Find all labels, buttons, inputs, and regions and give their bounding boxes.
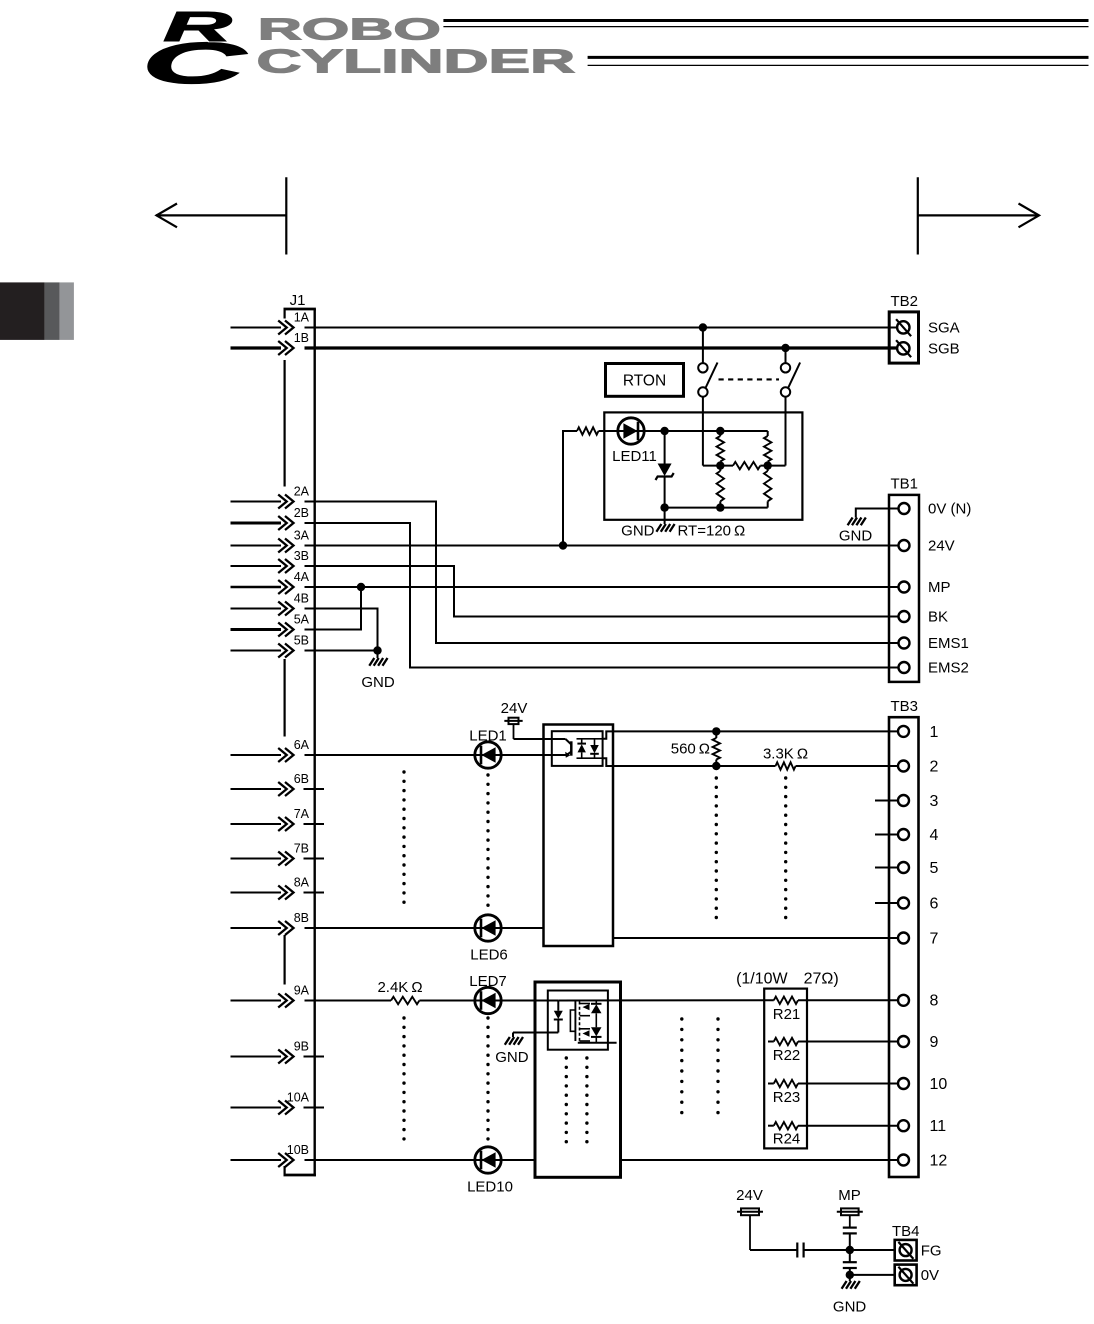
wire 5A to 4A — [305, 587, 362, 630]
svg-text:ROBO: ROBO — [258, 12, 441, 47]
svg-text:R: R — [163, 3, 232, 50]
page tab block — [0, 282, 45, 340]
PC2 body diode down — [591, 1027, 602, 1036]
wire switch S2 to RT network — [785, 397, 787, 466]
PC2 MOSFET pair — [574, 1001, 576, 1041]
J1 pin 10A — [231, 1107, 282, 1109]
LED1 — [475, 742, 501, 768]
TB1 pin EMS1 — [899, 638, 910, 649]
TB3 pin 7 — [898, 933, 909, 944]
wire TB1 0V to ground — [856, 509, 898, 518]
resistor ladder top-right — [767, 431, 769, 436]
wire node to ground — [849, 1275, 851, 1281]
svg-text:2: 2 — [930, 758, 939, 775]
node middle-left — [716, 461, 724, 469]
J1 pin 10B — [231, 1159, 282, 1161]
svg-text:LED1: LED1 — [469, 728, 507, 745]
svg-text:R21: R21 — [773, 1006, 801, 1023]
opto-coupler PC1 inner box — [552, 731, 603, 766]
TB1 pin MP — [899, 582, 910, 593]
continuation dots column D — [784, 776, 787, 779]
svg-text:GND: GND — [621, 523, 655, 540]
node middle-right — [764, 461, 772, 469]
resistor pack box — [764, 989, 807, 1149]
J1 pin 8A — [231, 892, 282, 894]
svg-text:12: 12 — [930, 1152, 948, 1169]
svg-text:EMS2: EMS2 — [928, 660, 969, 677]
resistor ladder top-left — [719, 431, 721, 436]
capacitor C3 (node to ground) — [843, 1261, 857, 1263]
wire 2A to EMS1 — [305, 502, 899, 644]
continuation dots column A — [402, 770, 405, 773]
svg-text:0V (N): 0V (N) — [928, 501, 971, 518]
opto-coupler PC2 inner box — [548, 991, 608, 1050]
continuation dots inside PC2 — [565, 1056, 568, 1059]
TB1 pin BK — [899, 611, 910, 622]
LED10 — [475, 1147, 501, 1173]
resistor 560ohm — [715, 731, 717, 738]
TB3 pin 11 — [898, 1120, 909, 1131]
logo wordmark CYLINDER — [257, 43, 576, 80]
resistor R21 — [774, 997, 798, 1004]
J1 pin 4B — [231, 608, 282, 610]
node bottom zener — [660, 503, 668, 511]
svg-text:1: 1 — [930, 724, 939, 741]
PC1 output diode down — [590, 745, 599, 753]
J1 pin 4A — [231, 586, 282, 588]
terminal block TB1 — [889, 495, 919, 682]
svg-text:GND: GND — [495, 1049, 529, 1066]
PC2 body diode up — [595, 1001, 597, 1004]
J1 pin 5B — [231, 650, 282, 652]
TB3 pin 8 — [898, 995, 909, 1006]
svg-text:R24: R24 — [773, 1131, 801, 1148]
TB4 screw terminal FG — [900, 1244, 912, 1256]
node 560ohm top — [712, 727, 720, 735]
svg-text:TB4: TB4 — [892, 1223, 920, 1240]
wire PC1 output top to TB3-1 — [603, 731, 898, 738]
continuation dots column E — [402, 1016, 405, 1019]
svg-text:(1/10W 27Ω): (1/10W 27Ω) — [736, 971, 839, 988]
svg-text:9B: 9B — [294, 1040, 309, 1054]
TB3 pin 4 — [898, 829, 909, 840]
wire bottom rail to ground — [664, 508, 666, 524]
svg-text:24V: 24V — [501, 700, 528, 717]
J1 pin 9B — [231, 1056, 282, 1058]
svg-text:0V: 0V — [921, 1267, 939, 1284]
TB3 stub at 800.5 — [875, 800, 898, 802]
wire 8B to PC1 — [305, 927, 544, 929]
svg-text:10B: 10B — [287, 1143, 309, 1157]
svg-text:RTON: RTON — [623, 373, 666, 390]
node bottom ladder-left — [716, 503, 724, 511]
capacitor C1 (series) — [796, 1243, 798, 1258]
node 4A-5A junction — [357, 583, 365, 591]
svg-text:2.4K Ω: 2.4K Ω — [377, 979, 422, 996]
svg-text:10A: 10A — [287, 1091, 310, 1105]
ground TB1 — [848, 518, 853, 526]
J1 pin 6A — [231, 754, 282, 756]
TB3 stub at 834.5 — [875, 834, 898, 836]
J1 pin 5A — [231, 628, 282, 631]
svg-text:3: 3 — [930, 793, 939, 810]
svg-text:FG: FG — [921, 1242, 942, 1259]
svg-text:TB1: TB1 — [891, 476, 919, 493]
TB3 pin 12 — [898, 1155, 909, 1166]
TB3 pin 9 — [898, 1036, 909, 1047]
left direction arrow — [156, 214, 286, 216]
wire 24V tap to LED11 — [563, 431, 577, 546]
svg-text:1B: 1B — [294, 331, 309, 345]
svg-text:RT=120 Ω: RT=120 Ω — [678, 523, 746, 540]
svg-text:GND: GND — [839, 528, 873, 545]
continuation dots column I — [680, 1017, 683, 1020]
svg-text:LED10: LED10 — [467, 1179, 513, 1196]
svg-text:5B: 5B — [294, 634, 309, 648]
switch S1 — [698, 363, 707, 372]
node zener top — [660, 427, 668, 435]
node 24V tap — [559, 541, 567, 549]
continuation dots column J — [716, 1017, 719, 1020]
wire PC2 top output to TB3-8 — [558, 999, 774, 1001]
svg-text:TB2: TB2 — [891, 293, 919, 310]
svg-text:7B: 7B — [294, 842, 309, 856]
LED11 — [618, 418, 644, 444]
svg-text:SGB: SGB — [928, 341, 960, 358]
svg-text:6B: 6B — [294, 772, 309, 786]
TB3 pin 10 — [898, 1078, 909, 1089]
wire 2B to EMS2 — [305, 523, 899, 668]
wire SGB (J1 1B to TB2) — [305, 346, 898, 349]
svg-text:24V: 24V — [736, 1187, 763, 1204]
svg-text:J1: J1 — [290, 292, 306, 309]
svg-text:9A: 9A — [294, 984, 310, 998]
RT termination network box — [604, 412, 802, 519]
svg-text:EMS1: EMS1 — [928, 635, 969, 652]
wire SGB to switch S2 — [785, 348, 787, 363]
TB4 screw terminal 0V — [900, 1269, 912, 1281]
resistor ladder bottom-right — [767, 466, 769, 471]
continuation dots column B — [486, 773, 489, 776]
wire PC2 lower output to TB3-12 — [621, 1159, 899, 1161]
header rule after ROBO — [443, 19, 1088, 22]
svg-text:1A: 1A — [294, 311, 310, 325]
svg-text:2A: 2A — [294, 485, 310, 499]
J1 pin 1A — [231, 327, 282, 329]
resistor LED11 series — [577, 427, 599, 434]
wire 9A input — [305, 1000, 392, 1002]
continuation dots column C — [715, 776, 718, 779]
capacitor C2 (MP to node) — [843, 1226, 857, 1228]
svg-text:CYLINDER: CYLINDER — [257, 43, 576, 80]
PC2 bottom rail — [578, 1042, 617, 1044]
right direction arrow — [918, 214, 1039, 216]
svg-text:5: 5 — [930, 860, 939, 877]
svg-text:8: 8 — [930, 993, 939, 1010]
TB2 screw terminal SGB — [897, 342, 909, 354]
svg-text:2B: 2B — [294, 506, 309, 520]
svg-text:6A: 6A — [294, 738, 310, 752]
LED6 — [475, 915, 501, 941]
wire 4B to ground — [305, 609, 378, 659]
TB3 pin 2 — [898, 761, 909, 772]
svg-text:4A: 4A — [294, 570, 310, 584]
J1 pin 3A — [231, 545, 282, 547]
TB3 stub at 867.5 — [875, 867, 898, 869]
svg-text:8A: 8A — [294, 876, 310, 890]
svg-text:8B: 8B — [294, 911, 309, 925]
J1 pin 7B — [231, 858, 282, 860]
wire SGA (J1 1A to TB2) — [305, 327, 898, 329]
TB3 pin 6 — [898, 898, 909, 909]
svg-text:11: 11 — [930, 1118, 947, 1135]
svg-text:4B: 4B — [294, 592, 309, 606]
J1 pin 3B — [231, 565, 282, 567]
wire LED11 to ladder (top rail) — [599, 430, 768, 432]
zener diode ZD — [664, 431, 666, 464]
resistor 2.4Kohm — [391, 997, 419, 1004]
PC1 output diode up — [577, 743, 586, 745]
wire 10B to PC2 — [305, 1159, 536, 1161]
node 4B-5B junction — [373, 646, 381, 654]
bottom rail — [665, 507, 768, 509]
resistor middle horizontal — [733, 462, 760, 469]
svg-text:MP: MP — [838, 1187, 861, 1204]
switch S2 — [781, 363, 790, 372]
TB1 pin 0V (N) — [899, 503, 910, 514]
ground J1 4B/5B — [369, 658, 374, 666]
PC2 input LED branch — [557, 1001, 559, 1011]
wire SGA to switch S1 — [702, 328, 704, 364]
wire 3B to BK — [305, 566, 899, 617]
svg-text:LED6: LED6 — [470, 947, 508, 964]
svg-text:4: 4 — [930, 827, 939, 844]
svg-text:7A: 7A — [294, 807, 310, 821]
TB1 pin EMS2 — [899, 662, 910, 673]
svg-text:24V: 24V — [928, 538, 955, 555]
svg-text:560 Ω: 560 Ω — [671, 741, 710, 758]
J1 pin 9A — [231, 1000, 282, 1002]
ground RT network — [656, 524, 661, 532]
TB1 pin 24V — [899, 540, 910, 551]
continuation dots column F — [486, 1016, 489, 1019]
middle rail — [703, 465, 733, 467]
terminal block TB3 — [889, 717, 919, 1177]
TB3 pin 5 — [898, 862, 909, 873]
svg-text:6: 6 — [930, 895, 939, 912]
svg-text:LED7: LED7 — [469, 973, 507, 990]
wire switch S1 to RT network — [702, 397, 704, 466]
resistor R24 — [768, 1125, 774, 1127]
J1 pin 2A — [231, 501, 282, 503]
ground PC2 — [505, 1037, 510, 1045]
svg-text:10: 10 — [930, 1076, 948, 1093]
LED7 — [475, 987, 501, 1013]
wire PC1 output bottom to TB3-2 — [603, 758, 776, 766]
relay RTON box — [606, 364, 684, 397]
svg-text:3B: 3B — [294, 549, 309, 563]
J1 pin 8B — [231, 927, 282, 929]
node 0V — [846, 1271, 854, 1279]
node FG — [846, 1246, 854, 1254]
logo wordmark ROBO — [258, 12, 441, 47]
wire 24V to capacitor — [750, 1249, 797, 1251]
node ladder left top — [716, 427, 724, 435]
node SGA tap — [699, 323, 707, 331]
resistor ladder bottom-left — [719, 466, 721, 471]
TB2 screw terminal SGA — [897, 321, 909, 333]
header rule after CYLINDER — [588, 56, 1089, 59]
node 560ohm bottom — [712, 762, 720, 770]
J1 pin 6B — [231, 788, 282, 790]
J1 pin 2B — [231, 522, 282, 525]
terminal block TB2 — [889, 312, 918, 363]
svg-text:R23: R23 — [773, 1089, 801, 1106]
node SGB tap — [781, 344, 789, 352]
svg-text:BK: BK — [928, 609, 948, 626]
svg-text:7: 7 — [930, 930, 939, 947]
wire 6A to PC1 — [305, 754, 567, 756]
svg-text:GND: GND — [833, 1299, 867, 1316]
PC1 phototransistor — [514, 738, 566, 740]
svg-text:GND: GND — [361, 674, 395, 691]
logo RC mark — [142, 31, 247, 96]
wire 5B to 4B junction — [305, 650, 378, 652]
TB3 pin 3 — [898, 795, 909, 806]
PC1 internal rails — [577, 738, 603, 740]
wire 4A to MP — [305, 586, 899, 588]
J1 pin 7A — [231, 823, 282, 825]
wire PC1 lower output to TB3-7 — [613, 937, 898, 939]
wire PC2 LED to ground — [512, 1033, 514, 1038]
svg-text:MP: MP — [928, 579, 951, 596]
svg-text:5A: 5A — [294, 613, 310, 627]
svg-text:R22: R22 — [773, 1047, 801, 1064]
wire node to TB4 0V — [850, 1274, 895, 1276]
svg-text:3A: 3A — [294, 529, 310, 543]
svg-text:9: 9 — [930, 1034, 939, 1051]
svg-text:TB3: TB3 — [891, 698, 919, 715]
switch gang link (dashed) — [719, 378, 780, 380]
ground bottom — [842, 1281, 847, 1289]
resistor 3.3Kohm — [776, 762, 796, 769]
opto-coupler PC1 outer box — [544, 725, 614, 947]
TB3 pin 1 — [898, 726, 909, 737]
wire 3A to 24V — [305, 545, 899, 547]
svg-text:LED11: LED11 — [612, 448, 657, 465]
TB3 stub at 903 — [875, 902, 898, 904]
resistor R22 — [768, 1041, 774, 1043]
svg-text:SGA: SGA — [928, 320, 960, 337]
connector J1 body — [284, 308, 316, 311]
J1 pin 1B — [231, 346, 282, 349]
wire node to TB4 FG — [850, 1249, 895, 1251]
resistor R23 — [768, 1083, 774, 1085]
opto-coupler PC2 outer box — [535, 982, 621, 1177]
svg-text:3.3K Ω: 3.3K Ω — [763, 746, 808, 763]
